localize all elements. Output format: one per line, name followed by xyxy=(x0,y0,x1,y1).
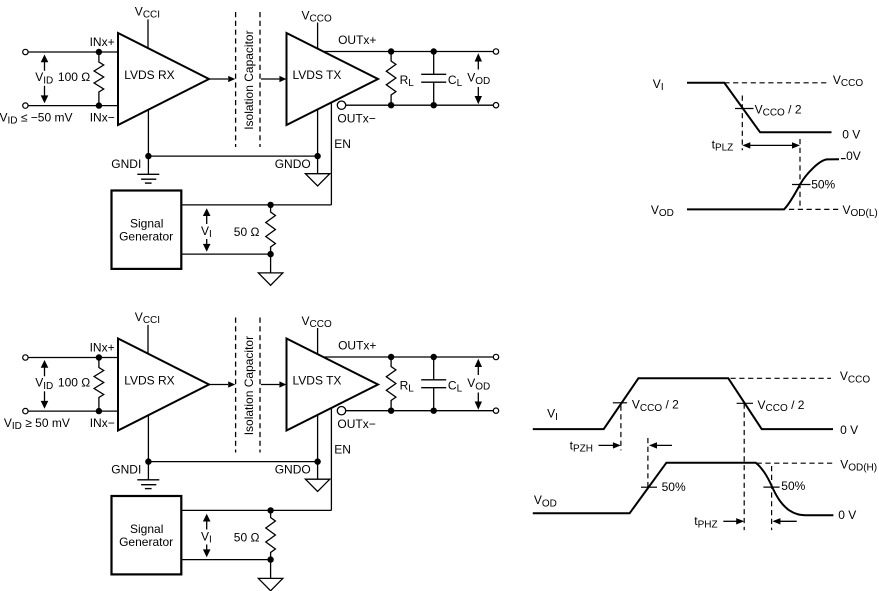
svg-text:0 V: 0 V xyxy=(838,508,856,522)
svg-text:50%: 50% xyxy=(811,178,835,192)
svg-text:50%: 50% xyxy=(781,479,805,493)
svg-text:0V: 0V xyxy=(846,149,861,163)
svg-text:50%: 50% xyxy=(662,480,686,494)
svg-text:0 V: 0 V xyxy=(842,127,860,141)
svg-text:0 V: 0 V xyxy=(840,423,858,437)
